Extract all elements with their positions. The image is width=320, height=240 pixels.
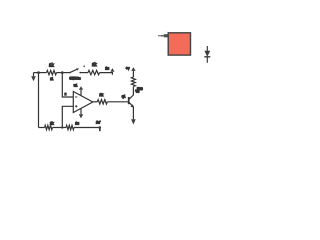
svg-text:’: ’ [201, 46, 202, 50]
svg-text:1k: 1k [49, 63, 54, 68]
power arrow VCC2 (+V up arrow, top right) [131, 67, 135, 77]
label tick above switch contact [83, 65, 85, 67]
svg-text:’ss: ’ss [135, 89, 139, 93]
resistor R2 (top rail, horizontal zigzag) [88, 70, 100, 74]
resistor R4 (bottom rail, horizontal zigzag) [66, 125, 74, 129]
wire: base wire to Q1 [107, 101, 128, 103]
node junction dot at (38.5,72.6) [37, 71, 40, 74]
transistor Q1 (NPN) [129, 95, 135, 108]
wire: bottom rail segment B [53, 127, 67, 129]
resistor R1 (top rail, horizontal zigzag) [47, 70, 57, 74]
wire: bottom rail segment C [74, 127, 100, 129]
resistor R5 (vertical zigzag, collector load) [131, 77, 135, 87]
op-amp U1 triangle [73, 92, 93, 113]
wire: bottom rail segment A [39, 127, 45, 129]
diode D1 (pointing down) [204, 46, 210, 63]
svg-text:q1: q1 [122, 94, 126, 98]
op-amp U1 minus input mark [75, 96, 77, 98]
wire: top rail segment A [34, 72, 47, 74]
wire: V2 from top rail junction down to op-amp inverting input [62, 73, 73, 97]
wire: top rail segment D with corner down [100, 73, 113, 75]
svg-text:1u’: 1u’ [96, 121, 101, 125]
svg-text:1u: 1u [105, 66, 109, 70]
wire: top rail segment B [57, 72, 70, 74]
svg-text:’: ’ [166, 30, 167, 34]
wire: R5 to collector [132, 87, 134, 96]
node junction dot at (62.3,72.6) [61, 71, 64, 74]
svg-text:2: 2 [65, 92, 67, 96]
svg-text:1k: 1k [92, 62, 97, 67]
resistor R3 (bottom rail, horizontal zigzag) [45, 125, 53, 129]
switch S1 (SPST lever open) [69, 68, 81, 73]
power arrow op-amp V+ (up arrow) [79, 86, 83, 95]
svg-text:65#98s: 65#98s [69, 77, 80, 81]
wire: op-amp non-inverting input to V3 down to bottom rail [62, 106, 73, 127]
svg-text:u1: u1 [74, 84, 78, 88]
wire: V1 left vertical branch [38, 73, 40, 128]
wire: top rail segment C [80, 72, 88, 74]
node junction dot at (62.3,127.5) [61, 126, 63, 128]
power arrow op-amp V- (down arrow) [79, 109, 83, 119]
wire: emitter down [132, 107, 134, 119]
node terminal pin at end of bottom rail [99, 126, 102, 131]
LED indicator square (red) [168, 33, 190, 55]
resistor R6 (op-amp output, horizontal zigzag) [97, 100, 107, 104]
svg-text:1u: 1u [75, 122, 79, 126]
wire: op-amp output [93, 101, 98, 103]
power arrow VCC1 (up arrow at end of top rail) [110, 68, 114, 72]
svg-text:1k: 1k [50, 122, 54, 126]
label arrow to LED square [158, 34, 168, 37]
ground arrow GND1 (top-left, down arrow) [31, 73, 36, 82]
svg-text:r1: r1 [50, 77, 53, 81]
op-amp U1 plus input mark [75, 105, 77, 107]
svg-text:1k: 1k [99, 93, 103, 97]
svg-text:+v: +v [126, 67, 130, 71]
ground arrow GND2 (below emitter, down arrow) [131, 119, 136, 124]
